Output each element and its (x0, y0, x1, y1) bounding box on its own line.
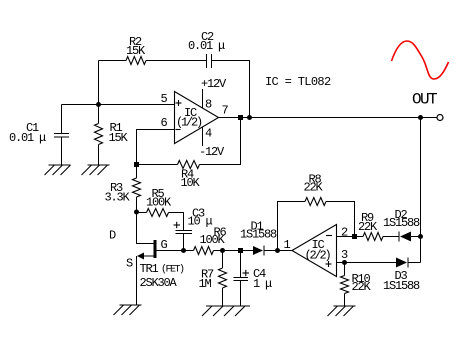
wire pin2 (337, 236, 364, 238)
svg-text:1: 1 (284, 238, 291, 252)
svg-text:10 μ: 10 μ (188, 215, 213, 229)
svg-text:1S1588: 1S1588 (383, 279, 420, 293)
svg-text:22K: 22K (352, 280, 372, 294)
sine wave icon (392, 41, 449, 79)
svg-text:8: 8 (205, 98, 212, 112)
wire R9 to D2 (383, 236, 399, 238)
svg-text:0.01 μ: 0.01 μ (9, 131, 46, 145)
pin 4 power lead -12V (199, 127, 225, 160)
wire C2 to output column (212, 61, 250, 118)
svg-text:1S1588: 1S1588 (383, 216, 420, 230)
node C2-output junction (247, 115, 252, 120)
svg-text:22K: 22K (358, 220, 378, 234)
ground R10 (328, 306, 356, 316)
node pin3 junction (342, 260, 347, 265)
OUT terminal (412, 91, 443, 121)
node R7 junction (220, 248, 225, 253)
ground R1 (82, 165, 110, 175)
node R3-R5-drain junction (134, 210, 139, 215)
wire R6 to D1 (214, 250, 254, 252)
resistor R4 (178, 161, 201, 191)
svg-text:4: 4 (205, 127, 212, 141)
wire output net (219, 117, 437, 119)
wire input net horizontal (62, 104, 175, 106)
wire D1 to op-amp pin1 (264, 250, 292, 252)
resistor R7 (199, 251, 227, 307)
svg-text:1S1588: 1S1588 (240, 228, 277, 242)
wire top feedback left vertical (98, 61, 100, 105)
svg-text:IC = TL082: IC = TL082 (265, 75, 331, 89)
wire divider column vertical (420, 118, 422, 263)
capacitor C2 (188, 30, 225, 68)
wire R5 left stub (137, 212, 147, 214)
node input junction (96, 102, 101, 107)
svg-text:+12V: +12V (201, 77, 227, 91)
op-amp U2 (IC 2/2) (292, 225, 337, 277)
wire R5 to C3 (169, 213, 184, 231)
svg-text:10K: 10K (181, 176, 201, 190)
svg-text:100K: 100K (146, 196, 172, 210)
diode D2 (383, 208, 420, 242)
resistor R10 (341, 263, 372, 307)
svg-text:OUT: OUT (412, 91, 437, 109)
resistor R9 (358, 211, 383, 241)
svg-text:1 μ: 1 μ (253, 277, 272, 291)
wire R4 left (137, 164, 178, 166)
svg-text:7: 7 (222, 104, 229, 118)
svg-text:TR1: TR1 (140, 262, 159, 276)
wire pin3 (337, 262, 397, 264)
transistor TR1 (FET 2SK30A) (109, 212, 184, 305)
node gate junction (181, 248, 186, 253)
wire top feedback horizontal left (99, 60, 127, 62)
diode D1 (240, 220, 277, 256)
svg-text:(FET): (FET) (161, 264, 184, 276)
resistor R8 feedback (278, 173, 355, 251)
resistor R2 (126, 35, 146, 65)
wire gate to R6 (184, 250, 194, 252)
resistor R5 (146, 187, 172, 217)
pin 8 power lead +12V (201, 77, 227, 112)
resistor R3 (105, 165, 141, 213)
svg-text:5: 5 (161, 92, 168, 106)
node pin6 feedback junction (134, 162, 139, 167)
diode D3 (383, 258, 421, 294)
node R8 feedback left junction (275, 248, 280, 253)
svg-text:6: 6 (161, 116, 168, 130)
svg-text:(1/2): (1/2) (176, 116, 202, 130)
svg-text:100K: 100K (200, 233, 226, 247)
node output-divider junction (418, 115, 423, 120)
svg-text:15K: 15K (109, 131, 129, 145)
op-amp U1 (IC 1/2) (175, 92, 219, 144)
svg-text:0.01 μ: 0.01 μ (188, 39, 225, 53)
svg-text:(2/2): (2/2) (305, 249, 331, 263)
svg-text:-12V: -12V (199, 145, 225, 159)
node pin2 junction (352, 234, 357, 239)
node D2 junction (418, 234, 423, 239)
node R4-output junction (238, 115, 243, 120)
wire pin6 to feedback node (137, 130, 175, 165)
ground R7 C4 shared (202, 306, 250, 316)
resistor R1 (95, 105, 129, 166)
svg-text:1M: 1M (199, 277, 212, 291)
ground TR1 source (114, 305, 142, 315)
wire D2 to divider column (411, 236, 421, 238)
capacitor C1 (9, 105, 69, 166)
wire R4 to output (200, 118, 241, 165)
resistor R6 (194, 226, 227, 255)
node C4 junction (238, 248, 243, 253)
svg-text:3: 3 (341, 248, 348, 262)
svg-text:22K: 22K (304, 181, 324, 195)
svg-text:2SK30A: 2SK30A (140, 276, 178, 290)
svg-text:D: D (109, 229, 116, 243)
capacitor C3 (174, 207, 213, 251)
svg-text:S: S (126, 257, 133, 271)
svg-text:2: 2 (341, 226, 348, 240)
svg-text:3.3K: 3.3K (105, 191, 131, 205)
svg-text:G: G (161, 238, 168, 252)
ground C1 (45, 165, 71, 175)
wire R2 to C2 (146, 60, 207, 62)
capacitor C4 (234, 251, 273, 307)
svg-text:15K: 15K (126, 44, 146, 58)
